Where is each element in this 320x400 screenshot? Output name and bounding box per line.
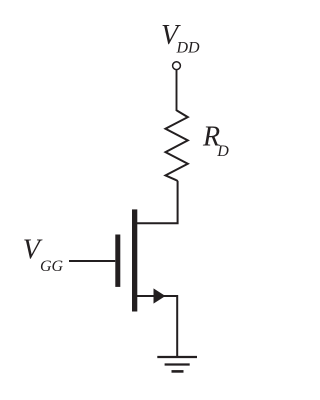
resistor RD	[166, 110, 188, 180]
node VGG label	[23, 234, 64, 275]
transistor channel bar	[132, 209, 137, 311]
wire VGG to gate	[69, 260, 115, 262]
svg-text:DD: DD	[176, 40, 201, 57]
resistor RD value label	[202, 121, 229, 160]
node VDD terminal	[173, 62, 181, 70]
wire VDD terminal to resistor top	[176, 70, 178, 111]
svg-text:GG: GG	[40, 258, 64, 275]
transistor gate bar	[115, 235, 120, 287]
node VDD label	[161, 20, 200, 57]
svg-text:D: D	[216, 143, 229, 160]
wire source to ground	[137, 296, 177, 357]
transistor source arrow	[154, 288, 166, 303]
wire resistor bottom to drain	[137, 180, 178, 223]
ground	[157, 357, 197, 371]
